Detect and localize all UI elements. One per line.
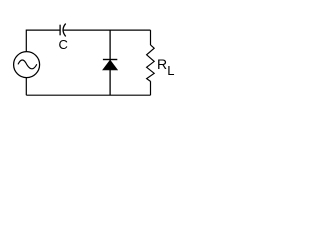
wire right branch bottom stub xyxy=(150,81,152,95)
resistor RL zigzag xyxy=(147,45,155,82)
wire right branch top stub xyxy=(150,30,152,45)
svg-text:R: R xyxy=(157,56,167,72)
ac source V1 sine wave xyxy=(18,60,37,69)
diode D1 anode triangle xyxy=(103,60,118,70)
svg-text:L: L xyxy=(167,63,174,78)
label RL xyxy=(157,56,175,78)
wire top-left from source to capacitor xyxy=(26,30,59,52)
wire bottom rail xyxy=(26,94,150,96)
diode D1 cathode bar xyxy=(103,59,117,61)
wire middle branch vertical xyxy=(109,30,111,95)
wire top from capacitor to top-right corner xyxy=(64,29,151,31)
capacitor C xyxy=(60,24,66,37)
svg-text:C: C xyxy=(59,37,68,52)
ac source V1 circle xyxy=(14,52,40,78)
wire bottom-left from bottom rail to source xyxy=(25,78,27,96)
label C xyxy=(59,37,68,52)
